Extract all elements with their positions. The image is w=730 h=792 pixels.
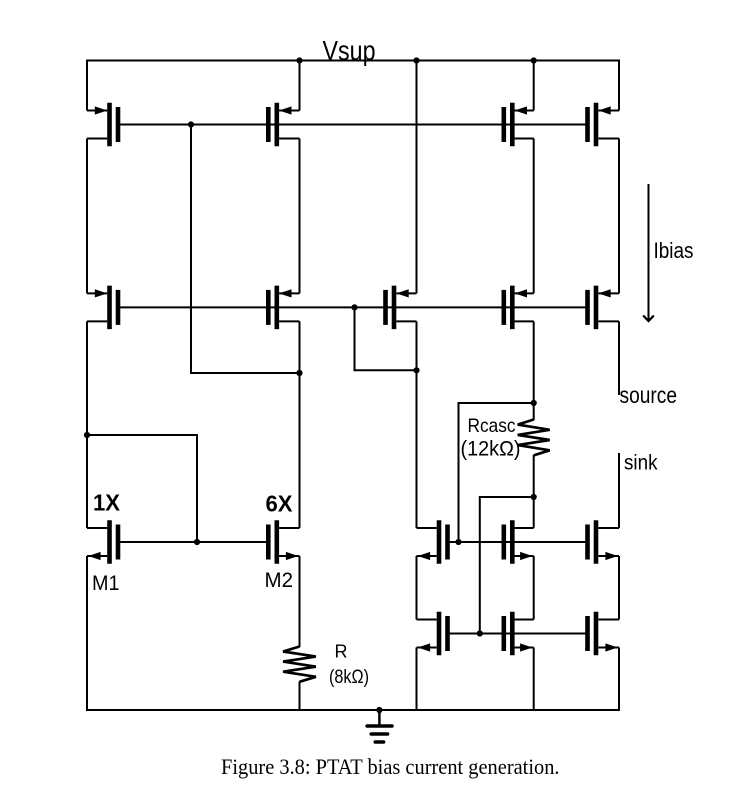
node bottom gate junction (477, 630, 483, 636)
node M gate junction (194, 539, 200, 545)
NMOS mirror (N4) (417, 612, 450, 656)
wire N4 source to ground rail (416, 648, 418, 712)
wire N5 source to ground rail (533, 648, 535, 712)
NMOS mirror (N5) (502, 612, 534, 656)
wire Vsup to T3 source (533, 61, 535, 111)
svg-text:Vsup: Vsup (323, 35, 376, 66)
NMOS cascode (N1) (417, 520, 450, 564)
transistor M1 (87, 520, 120, 564)
node Vsup-T3 junction (531, 57, 537, 63)
svg-text:Figure 3.8: PTAT bias current: Figure 3.8: PTAT bias current generation… (221, 754, 560, 779)
wire N2 source to N5 drain (533, 556, 535, 620)
wire C3 drain down (416, 321, 418, 370)
svg-text:source: source (620, 382, 678, 408)
PMOS cascode (C5) (585, 286, 619, 330)
PMOS cascode diode-connected (C3) (383, 286, 416, 330)
ground rail (86, 709, 620, 711)
node A - Rcasc top (531, 400, 537, 406)
power rail Vsup (87, 60, 619, 62)
wire cascode PMOS gate line (118, 306, 588, 308)
wire C1 drain to M1 drain (86, 321, 88, 528)
wire Vsup to T4 source (618, 60, 620, 111)
wire Vsup to T1 source (86, 60, 88, 111)
svg-text:sink: sink (624, 451, 658, 475)
wire node B to bottom NMOS gates (480, 497, 534, 634)
PMOS mirror top-left (T1) (87, 103, 120, 147)
svg-text:(12kΩ): (12kΩ) (461, 438, 521, 461)
svg-text:R: R (335, 642, 348, 662)
wire N1 source to N4 drain (416, 556, 418, 620)
wire node A to NMOS cascode gates (459, 403, 534, 542)
svg-text:M1: M1 (92, 572, 120, 595)
wire N3 source to N6 drain (618, 556, 620, 620)
NMOS cascode sink output (N3) (585, 520, 619, 564)
wire top PMOS gate line (118, 124, 588, 126)
node M1 drain junction (84, 432, 90, 438)
wire T4 drain to C5 source (618, 139, 620, 294)
wire N6 source to ground rail (618, 648, 620, 712)
svg-text:M2: M2 (265, 569, 294, 592)
node C3 drain junction (413, 367, 419, 373)
PMOS cascode (C2) (266, 286, 300, 330)
node C2 drain junction (296, 370, 302, 376)
wire bottom NMOS gate line (448, 633, 588, 635)
node Vsup-C3 junction (413, 57, 419, 63)
Ibias current arrow (644, 184, 653, 321)
wire Vsup to T2 source (299, 61, 301, 111)
wire top gate line to C2 drain node (191, 125, 300, 374)
wire M1-M2 gate line (118, 541, 268, 543)
wire C3 drain to N1 drain (416, 370, 418, 528)
node top gate line junction (188, 121, 194, 127)
wire C3 gate to drain (diode connection) (355, 307, 417, 370)
node ground junction (376, 707, 382, 713)
PMOS mirror (T3) (502, 103, 534, 147)
svg-text:Ibias: Ibias (654, 238, 694, 263)
node B - Rcasc bottom (531, 494, 537, 500)
NMOS cascode (N2) (502, 520, 534, 564)
PMOS cascode (C4) (502, 286, 534, 330)
svg-text:1X: 1X (93, 490, 121, 516)
NMOS mirror (N6) (585, 612, 619, 656)
svg-text:(8kΩ): (8kΩ) (329, 666, 369, 688)
wire C2 drain to M2 drain (299, 321, 301, 528)
wire M1 drain node to M gate line (87, 435, 197, 542)
resistor R (283, 647, 316, 682)
resistor Rcasc (518, 420, 550, 456)
wire sink terminal to N3 drain (618, 453, 620, 528)
svg-text:6X: 6X (266, 491, 294, 517)
wire resistor R to ground rail (299, 682, 301, 712)
wire Vsup to C3 source (416, 61, 418, 294)
wire T3 drain to C4 source (533, 139, 535, 294)
node NMOS cascode gate junction (455, 539, 461, 545)
wire C4 drain to Rcasc top (533, 321, 535, 420)
node cascode gate junction (351, 304, 357, 310)
wire T2 drain to C2 source (299, 139, 301, 294)
svg-text:Rcasc: Rcasc (468, 415, 516, 437)
PMOS cascode (C1) (87, 286, 120, 330)
wire M2 source to resistor R (299, 556, 301, 647)
wire M1 source to ground rail (86, 556, 88, 711)
wire Rcasc bottom to N2 drain (533, 455, 535, 528)
ground symbol (367, 710, 392, 742)
node Vsup-T2 junction (296, 57, 302, 63)
transistor M2 (266, 520, 300, 564)
wire C5 drain to source terminal (618, 321, 620, 395)
wire NMOS cascode gate line (448, 541, 588, 543)
wire T1 drain to C1 source (86, 139, 88, 294)
PMOS mirror top-right (T4) (585, 103, 619, 147)
PMOS mirror (T2) (266, 103, 300, 147)
